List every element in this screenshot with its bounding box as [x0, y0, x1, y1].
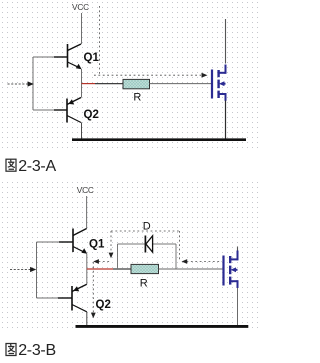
- dashed annotation path (VCC to gate): [99, 6, 101, 75]
- caption 图2-3-B: [6, 344, 16, 356]
- wire Q2 collector to rail: [81, 123, 83, 140]
- wire R to MOSFET gate (fig B): [159, 268, 224, 270]
- resistor R (fig A): [123, 79, 150, 88]
- dashed annotation to gate with left arrow: [187, 261, 223, 263]
- svg-text:2-3-A: 2-3-A: [18, 158, 56, 175]
- svg-text:Q2: Q2: [84, 109, 99, 121]
- svg-text:VCC: VCC: [77, 185, 94, 195]
- svg-text:R: R: [133, 91, 141, 103]
- wire base Q2: [33, 109, 54, 111]
- transistor Q2 (fig B PNP): [58, 284, 87, 312]
- wire base Q2 (fig B): [37, 297, 59, 299]
- wire base Q1: [33, 56, 54, 58]
- input dashed arrow (fig B): [10, 269, 31, 271]
- MOSFET body arrowhead (fig B): [231, 267, 237, 272]
- wire left vertical: [32, 57, 34, 110]
- MOSFET M1 (fig B): [224, 251, 238, 289]
- wire left vertical (fig B): [36, 242, 38, 298]
- Q1 emitter arrowhead: [76, 64, 82, 69]
- wire R to MOSFET gate: [150, 83, 213, 85]
- svg-text:R: R: [140, 277, 148, 289]
- svg-text:VCC: VCC: [72, 2, 89, 12]
- ground rail A: [72, 138, 246, 141]
- wire drain stub (fig B): [237, 247, 239, 251]
- grid background A: [0, 0, 262, 148]
- ground rail B: [76, 325, 249, 328]
- diode D: [145, 236, 152, 253]
- dashed annotation rectangle around D: [110, 231, 112, 253]
- wire source to rail: [225, 101, 227, 140]
- MOSFET M1 (fig A, N-channel): [212, 65, 226, 101]
- wire base Q1 (fig B): [37, 241, 60, 243]
- wire Q2 collector to rail (fig B): [86, 312, 88, 326]
- wire VCC to Q1 collector: [81, 13, 83, 44]
- wire source to rail (fig B): [237, 288, 239, 326]
- transistor Q1 (fig B NPN): [59, 229, 87, 253]
- Q2 emitter arrowhead (points into bar): [68, 99, 74, 104]
- diode branch wires: [118, 244, 177, 269]
- junction vertical (fig B): [86, 254, 88, 285]
- svg-text:Q1: Q1: [84, 52, 100, 64]
- resistor R (fig B): [131, 264, 159, 273]
- transistor Q1 (NPN): [54, 44, 81, 68]
- wire drain up: [225, 19, 227, 64]
- dashed annotation down through Q2 to rail: [92, 262, 94, 313]
- wire junction to R (red highlighted, fig B): [87, 268, 113, 270]
- wire VCC to Q1 collector: [86, 196, 88, 229]
- dashed annotation junction left arrow: [99, 261, 112, 263]
- svg-text:Q1: Q1: [89, 239, 105, 251]
- caption 图2-3-A: [6, 159, 16, 171]
- transistor Q2 (PNP): [54, 98, 81, 123]
- Q1 emitter arrowhead (fig B): [81, 248, 87, 253]
- wire Q1 emitter to Q2 emitter (junction vertical): [81, 69, 83, 98]
- svg-text:Q2: Q2: [96, 299, 111, 311]
- MOSFET body arrowhead: [219, 81, 225, 86]
- grid background B: [0, 178, 262, 332]
- svg-text:2-3-B: 2-3-B: [18, 342, 56, 359]
- svg-text:D: D: [143, 220, 151, 232]
- Q2 emitter arrowhead (fig B, points into bar): [73, 286, 79, 291]
- input dashed arrow: [8, 83, 29, 85]
- wire junction to R (red highlighted): [82, 83, 96, 85]
